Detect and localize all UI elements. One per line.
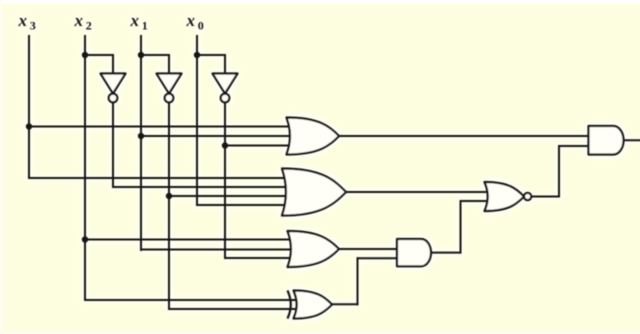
svg-text:2: 2 xyxy=(86,19,92,33)
svg-text:x: x xyxy=(186,11,196,30)
svg-text:0: 0 xyxy=(198,19,204,33)
svg-text:3: 3 xyxy=(30,19,36,33)
svg-text:1: 1 xyxy=(142,19,148,33)
svg-text:x: x xyxy=(18,11,28,30)
svg-text:x: x xyxy=(74,11,84,30)
svg-text:x: x xyxy=(130,11,140,30)
